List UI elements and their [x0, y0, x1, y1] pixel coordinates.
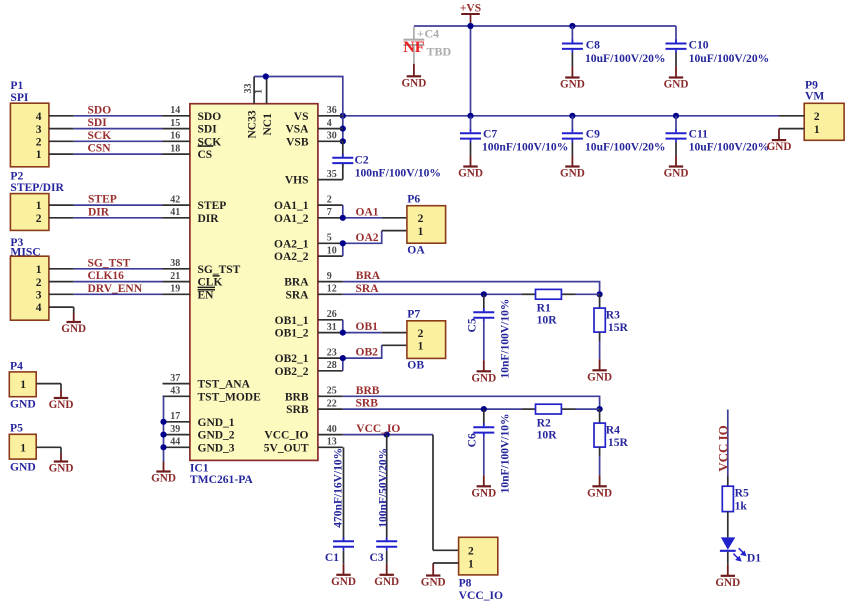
pin 43 TST_MODE [163, 395, 190, 397]
ground C1 [343, 564, 345, 575]
svg-text:SDO: SDO [198, 111, 222, 123]
pin 16 SCK [163, 140, 190, 142]
svg-text:1: 1 [418, 341, 424, 353]
connector P1 [10, 103, 49, 167]
svg-text:C1: C1 [325, 551, 339, 564]
svg-text:GND: GND [49, 463, 74, 475]
svg-text:C9: C9 [586, 128, 600, 141]
svg-text:2: 2 [418, 213, 424, 225]
svg-text:SCK: SCK [88, 130, 112, 142]
pin 1 stub [266, 77, 268, 104]
pin 37 TST_ANA [163, 383, 190, 385]
pin 30 VSB [318, 140, 343, 142]
svg-text:1: 1 [814, 124, 820, 136]
svg-text:C5: C5 [465, 318, 478, 332]
ground R3 [599, 359, 601, 370]
wire VCC_IO net [343, 434, 433, 436]
pin 15 SDI [163, 128, 190, 130]
svg-text:10nF/100V/10%: 10nF/100V/10% [500, 299, 512, 379]
ground C4 [413, 64, 415, 77]
connector P3 [10, 256, 49, 320]
wire NC loop [254, 77, 343, 142]
svg-text:31: 31 [327, 322, 337, 333]
svg-text:GND: GND [767, 141, 792, 153]
wire TST_MODE/GND bus [163, 396, 165, 461]
svg-text:BRA: BRA [356, 270, 381, 282]
svg-text:1: 1 [418, 226, 424, 238]
wire CSN net [49, 153, 74, 155]
junction GND_1 [160, 419, 166, 425]
svg-text:GND: GND [664, 79, 689, 91]
svg-text:VM: VM [805, 90, 824, 103]
pin 9 BRA [318, 281, 343, 283]
svg-text:SDI: SDI [88, 117, 108, 129]
connector P2 [10, 194, 49, 231]
svg-text:C2: C2 [355, 153, 369, 166]
svg-text:15R: 15R [608, 321, 629, 334]
svg-text:SRB: SRB [356, 398, 379, 410]
svg-text:100nF/50V/20%: 100nF/50V/20% [378, 448, 390, 528]
svg-text:OA1_2: OA1_2 [274, 213, 309, 225]
junction R1/R3/BRA [597, 291, 603, 297]
ground D1 [727, 565, 729, 576]
svg-text:39: 39 [170, 424, 180, 435]
svg-text:OA1: OA1 [356, 206, 379, 218]
svg-text:NC1: NC1 [262, 113, 274, 136]
pin 13 5V_OUT [318, 446, 343, 448]
pin 10 OA2_2 [318, 255, 343, 257]
svg-text:1: 1 [36, 200, 42, 212]
pin 14 SDO [163, 115, 190, 117]
pin 35 VHS [318, 179, 343, 181]
svg-text:GND: GND [715, 577, 740, 589]
svg-text:2: 2 [418, 328, 424, 340]
svg-text:33: 33 [243, 84, 254, 94]
pin 28 OB2_2 [318, 370, 343, 372]
svg-text:R4: R4 [606, 423, 620, 436]
wire D1 cathode [727, 552, 729, 565]
pin 21 CLK [163, 281, 190, 283]
pin 36 VS [318, 115, 343, 117]
svg-text:EN: EN [198, 289, 215, 301]
svg-text:40: 40 [327, 424, 337, 435]
pin 25 BRB [318, 395, 343, 397]
svg-text:DRV_ENN: DRV_ENN [88, 283, 143, 295]
junction SRA/C5 [481, 291, 487, 297]
svg-text:D1: D1 [747, 551, 761, 564]
pin 5 OA2_1 [318, 242, 343, 244]
ground R4 [599, 475, 601, 486]
svg-text:15: 15 [170, 118, 180, 129]
wire SCK net [49, 140, 74, 142]
capacitor C10 [675, 26, 677, 43]
connector P4 [9, 372, 36, 397]
svg-text:VCC_IO: VCC_IO [356, 423, 400, 435]
svg-text:CSN: CSN [88, 143, 112, 155]
svg-text:C6: C6 [465, 433, 478, 447]
wire OA1 net [342, 205, 344, 218]
svg-text:12: 12 [327, 284, 337, 295]
junction VS rail / C11 [673, 113, 679, 119]
wire P8 pin1 to gnd [433, 562, 458, 564]
ground P9 [778, 129, 780, 141]
junction +VS/top-rail [467, 23, 473, 29]
junction R2/R4/BRB [597, 406, 603, 412]
svg-text:44: 44 [170, 437, 180, 448]
ground P5 [60, 447, 62, 453]
resistor R1 [522, 293, 536, 295]
capacitor C8 [571, 26, 573, 43]
svg-text:GND: GND [421, 577, 446, 589]
pin 19 EN [163, 293, 190, 295]
svg-text:GND: GND [587, 488, 612, 500]
svg-text:GND_2: GND_2 [198, 430, 235, 442]
wire P9 pin1 to gnd [779, 128, 804, 130]
ground P8 [432, 565, 434, 576]
wire SRB net [343, 408, 522, 410]
svg-text:GND: GND [151, 473, 176, 485]
wire BRB net [343, 396, 600, 409]
svg-text:DIR: DIR [88, 206, 110, 218]
svg-text:GND: GND [10, 397, 36, 410]
svg-text:SRA: SRA [285, 289, 309, 301]
svg-text:GND: GND [401, 78, 426, 90]
overline SCK/CS [198, 145, 214, 147]
svg-text:4: 4 [327, 118, 332, 129]
svg-text:SDI: SDI [198, 124, 218, 136]
wire BRA net [343, 282, 600, 295]
pin 12 SRA [318, 293, 343, 295]
svg-text:35: 35 [327, 169, 337, 180]
svg-text:10uF/100V/20%: 10uF/100V/20% [585, 52, 666, 65]
svg-text:25: 25 [327, 386, 337, 397]
connector P9 [804, 103, 844, 140]
underline CLK [198, 286, 215, 288]
svg-text:SDO: SDO [88, 104, 112, 116]
svg-text:SG_TST: SG_TST [198, 264, 241, 276]
wire SRA net [343, 293, 522, 295]
IC U1 body IC1 TMC261-PA [190, 104, 318, 461]
svg-text:10nF/100V/10%: 10nF/100V/10% [500, 414, 512, 494]
connector P6 [407, 206, 446, 244]
svg-text:1k: 1k [735, 499, 748, 512]
svg-text:5: 5 [327, 233, 332, 244]
svg-text:28: 28 [327, 360, 337, 371]
svg-text:2: 2 [36, 137, 42, 149]
svg-text:1: 1 [20, 443, 26, 455]
pin 4 VSA [318, 128, 343, 130]
svg-text:OA2: OA2 [356, 232, 379, 244]
svg-text:21: 21 [170, 271, 180, 282]
junction OA2 [340, 240, 346, 246]
junction VSA [340, 126, 346, 132]
wire CLK16 net [49, 281, 74, 283]
pin 38 SG_TST [163, 268, 190, 270]
svg-text:GND: GND [587, 372, 612, 384]
svg-text:16: 16 [170, 131, 180, 142]
svg-text:15R: 15R [608, 436, 629, 449]
wire DRV_ENN net [49, 293, 74, 295]
svg-text:41: 41 [170, 207, 180, 218]
ground C3 [386, 564, 388, 575]
capacitor C2 [342, 141, 344, 157]
svg-text:C11: C11 [689, 128, 709, 141]
svg-text:2: 2 [36, 277, 42, 289]
svg-text:10uF/100V/20%: 10uF/100V/20% [689, 52, 770, 65]
svg-text:C3: C3 [370, 551, 384, 564]
pin 31 OB1_2 [318, 332, 343, 334]
svg-text:R5: R5 [735, 486, 749, 499]
svg-text:SRB: SRB [286, 404, 309, 416]
pin 18 CS [163, 153, 190, 155]
capacitor C11 [675, 116, 677, 131]
svg-text:+VS: +VS [460, 3, 481, 15]
wire P3 pin4 to gnd [49, 306, 74, 308]
svg-text:P8: P8 [459, 577, 472, 590]
svg-text:4: 4 [36, 302, 42, 314]
wire P9 pin2 stub [779, 115, 804, 117]
svg-text:1: 1 [254, 89, 265, 94]
svg-text:3: 3 [36, 290, 42, 302]
junction SRB/C6 [481, 406, 487, 412]
svg-text:GND: GND [374, 576, 399, 588]
wire P5 to gnd [36, 446, 61, 448]
wire SDI net [49, 128, 74, 130]
svg-text:GND: GND [61, 323, 86, 335]
junction C8/top-rail [569, 23, 575, 29]
svg-text:2: 2 [468, 546, 474, 558]
junction OB2 [340, 355, 346, 361]
svg-text:C7: C7 [483, 128, 497, 141]
connector P8 [459, 537, 498, 575]
pin 39 GND_2 [163, 434, 190, 436]
pin 33 stub [253, 77, 255, 104]
svg-text:TST_ANA: TST_ANA [198, 379, 251, 391]
svg-text:7: 7 [327, 207, 332, 218]
svg-text:10uF/100V/20%: 10uF/100V/20% [585, 141, 666, 154]
svg-text:1: 1 [36, 149, 42, 161]
svg-text:GND: GND [49, 399, 74, 411]
svg-text:43: 43 [170, 386, 180, 397]
svg-text:R2: R2 [537, 417, 551, 430]
svg-text:10uF/100V/20%: 10uF/100V/20% [689, 141, 770, 154]
svg-text:10: 10 [327, 246, 337, 257]
svg-text:NC33: NC33 [247, 110, 259, 138]
svg-text:GND_1: GND_1 [198, 417, 235, 429]
pin 7 OA1_2 [318, 217, 343, 219]
svg-text:1: 1 [36, 264, 42, 276]
wire SG_TST net [49, 268, 74, 270]
resistor R4 [599, 409, 601, 423]
svg-text:OB1_1: OB1_1 [275, 315, 309, 327]
svg-text:BRB: BRB [285, 391, 309, 403]
svg-text:OB2_2: OB2_2 [275, 366, 309, 378]
svg-text:VHS: VHS [285, 175, 309, 187]
svg-text:10R: 10R [537, 314, 558, 327]
svg-text:23: 23 [327, 347, 337, 358]
junction VCC_IO/C3 [384, 432, 390, 438]
junction VS rail / NC drop [340, 113, 346, 119]
svg-text:C8: C8 [586, 39, 600, 52]
resistor R3 [599, 294, 601, 308]
svg-text:P5: P5 [10, 422, 23, 435]
wire VCC_IO LED branch [727, 410, 729, 477]
ground C11 [675, 156, 677, 167]
pin 40 VCC_IO [318, 434, 343, 436]
svg-text:P6: P6 [407, 193, 420, 206]
svg-text:2: 2 [814, 111, 820, 123]
resistor R5 [727, 476, 729, 486]
svg-text:OA2_1: OA2_1 [274, 238, 309, 250]
svg-text:37: 37 [170, 373, 180, 384]
wire OB2 net [342, 358, 344, 371]
svg-text:2: 2 [36, 213, 42, 225]
wire P4 to gnd [36, 383, 61, 385]
svg-text:GND: GND [664, 168, 689, 180]
svg-text:17: 17 [170, 411, 180, 422]
svg-text:10R: 10R [537, 429, 558, 442]
svg-text:3: 3 [36, 124, 42, 136]
ground C9 [571, 156, 573, 167]
svg-text:OB1_2: OB1_2 [275, 328, 309, 340]
svg-text:30: 30 [327, 131, 337, 142]
ground P3 [73, 307, 75, 313]
svg-text:CLK16: CLK16 [88, 270, 125, 282]
svg-text:CS: CS [198, 149, 213, 161]
junction VS rail / C9 [569, 113, 575, 119]
svg-text:P7: P7 [407, 308, 420, 321]
svg-text:GND_3: GND_3 [198, 442, 235, 454]
pin 17 GND_1 [163, 421, 190, 423]
svg-text:VSB: VSB [286, 136, 309, 148]
wire +VS top rail [414, 25, 676, 27]
wire OB1 net [342, 320, 344, 333]
svg-text:OB2: OB2 [356, 347, 379, 359]
svg-text:OB2_1: OB2_1 [275, 353, 309, 365]
ground C5 [483, 360, 485, 371]
svg-text:GND: GND [10, 461, 36, 474]
svg-text:36: 36 [327, 105, 337, 116]
pin 23 OB2_1 [318, 357, 343, 359]
svg-text:OA1_1: OA1_1 [274, 200, 309, 212]
capacitor C3 [386, 435, 388, 542]
svg-text:VS: VS [294, 111, 309, 123]
pin 26 OB1_1 [318, 319, 343, 321]
svg-text:GND: GND [560, 79, 585, 91]
wire SDO net [49, 115, 74, 117]
pin 44 GND_3 [163, 446, 190, 448]
resistor R2 [522, 408, 536, 410]
ground IC1 [163, 462, 165, 472]
svg-text:STEP: STEP [88, 194, 117, 206]
ground C10 [675, 67, 677, 78]
svg-text:C10: C10 [689, 39, 709, 52]
svg-text:BRB: BRB [356, 385, 380, 397]
svg-text:42: 42 [170, 195, 180, 206]
svg-text:26: 26 [327, 309, 337, 320]
svg-text:5V_OUT: 5V_OUT [264, 442, 309, 454]
pin 2 OA1_1 [318, 204, 343, 206]
junction VS rail / +VS [467, 113, 473, 119]
wire VS rail [343, 115, 779, 117]
ground P4 [60, 384, 62, 390]
svg-text:R3: R3 [606, 308, 620, 321]
wire +VS drop to VS rail [470, 26, 472, 116]
svg-text:OA2_2: OA2_2 [274, 251, 309, 263]
capacitor C9 [571, 116, 573, 131]
connector P5 [9, 434, 36, 459]
svg-text:MISC: MISC [10, 246, 40, 259]
capacitor C7 [470, 116, 472, 131]
connector P7 [407, 321, 446, 359]
svg-text:GND: GND [331, 576, 356, 588]
svg-text:1: 1 [20, 379, 26, 391]
svg-text:1: 1 [468, 558, 474, 570]
overline CLK (partial) [213, 275, 220, 277]
svg-text:22: 22 [327, 398, 337, 409]
svg-text:GND: GND [458, 168, 483, 180]
wire OA2 net [342, 243, 344, 256]
svg-text:9: 9 [327, 271, 332, 282]
svg-text:VCC_IO: VCC_IO [459, 589, 503, 602]
svg-text:SG_TST: SG_TST [88, 257, 131, 269]
ground C8 [571, 67, 573, 78]
junction GND_2 [160, 432, 166, 438]
svg-text:100nF/100V/10%: 100nF/100V/10% [482, 141, 568, 154]
svg-text:38: 38 [170, 258, 180, 269]
svg-text:DIR: DIR [198, 213, 220, 225]
pin 42 STEP [163, 204, 190, 206]
capacitor C1 [343, 447, 345, 541]
pin 41 DIR [163, 217, 190, 219]
svg-text:OB1: OB1 [356, 321, 379, 333]
svg-text:STEP/DIR: STEP/DIR [10, 181, 64, 194]
svg-text:C4: C4 [425, 27, 440, 41]
ground C6 [483, 475, 485, 486]
svg-text:P4: P4 [10, 359, 23, 372]
overline EN [198, 289, 215, 291]
svg-text:13: 13 [327, 437, 337, 448]
svg-text:19: 19 [170, 284, 180, 295]
svg-text:SPI: SPI [10, 91, 29, 104]
ground C7 [470, 156, 472, 167]
capacitor C6 [483, 409, 485, 426]
svg-text:STEP: STEP [198, 200, 227, 212]
wire DIR net [49, 217, 74, 219]
svg-text:VSA: VSA [285, 124, 309, 136]
wire STEP net [49, 204, 74, 206]
svg-text:4: 4 [36, 111, 42, 123]
svg-text:BRA: BRA [284, 277, 309, 289]
svg-text:VCC_IO: VCC_IO [264, 430, 308, 442]
svg-text:GND: GND [560, 168, 585, 180]
svg-text:14: 14 [170, 105, 180, 116]
svg-text:2: 2 [327, 195, 332, 206]
junction GND_3 [160, 444, 166, 450]
svg-text:SRA: SRA [356, 283, 380, 295]
junction OA1 [340, 215, 346, 221]
svg-text:VCC IO: VCC IO [716, 425, 731, 472]
LED D1 [721, 537, 735, 549]
capacitor C5 [483, 294, 485, 311]
junction OB1 [340, 330, 346, 336]
svg-text:TBD: TBD [427, 45, 452, 59]
pin 22 SRB [318, 408, 343, 410]
svg-text:GND: GND [471, 373, 496, 385]
junction NC1/loop [263, 73, 269, 79]
svg-text:470nF/16V/10%: 470nF/16V/10% [333, 448, 345, 528]
svg-text:TMC261-PA: TMC261-PA [190, 473, 254, 486]
